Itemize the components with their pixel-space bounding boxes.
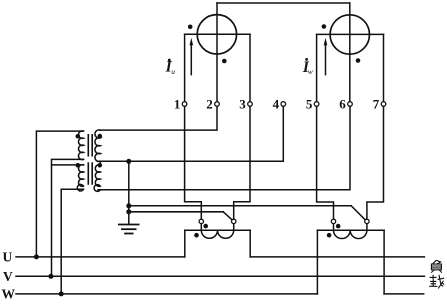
svg-text:7: 7 <box>373 97 380 112</box>
svg-text:6: 6 <box>339 97 346 112</box>
svg-text:3: 3 <box>239 97 246 112</box>
svg-text:V: V <box>3 269 13 284</box>
svg-text:U: U <box>3 250 13 265</box>
svg-text:w: w <box>308 67 313 76</box>
svg-text:5: 5 <box>306 97 313 112</box>
svg-text:2: 2 <box>206 97 213 112</box>
svg-text:4: 4 <box>273 97 280 112</box>
svg-text:1: 1 <box>174 97 181 112</box>
svg-text:W: W <box>2 286 16 301</box>
svg-text:u: u <box>171 67 175 76</box>
